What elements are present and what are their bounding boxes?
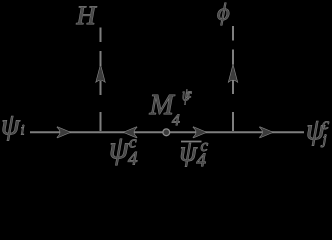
svg-text:ψ: ψ [109, 129, 130, 165]
svg-text:ϕ: ϕ [217, 0, 230, 26]
arrowhead up on H line [96, 66, 104, 82]
svg-text:c: c [186, 87, 193, 102]
wire: dashed phi boson line [232, 26, 234, 131]
label psi_4^c bar overline [181, 141, 202, 143]
svg-text:4: 4 [197, 150, 207, 171]
node: mass insertion dot M4 [163, 129, 170, 136]
arrowhead left, segment psi_4^c [124, 127, 137, 138]
wire: dashed H boson line [100, 28, 102, 132]
arrowhead up on phi line [229, 66, 237, 82]
arrowhead right, segment psi_4^c bar [193, 127, 206, 138]
svg-text:H: H [76, 0, 98, 30]
svg-text:ψ: ψ [1, 108, 21, 141]
arrowhead right, segment psi_j^c [260, 127, 273, 138]
svg-text:i: i [21, 123, 25, 139]
arrowhead right, segment psi_i [57, 127, 70, 138]
wire: horizontal fermion line psi_i to psi_j^c (halo) [30, 131, 304, 133]
svg-text:4: 4 [172, 112, 180, 129]
svg-text:4: 4 [128, 149, 138, 170]
svg-text:ψ: ψ [180, 137, 198, 168]
svg-text:c: c [322, 116, 329, 133]
